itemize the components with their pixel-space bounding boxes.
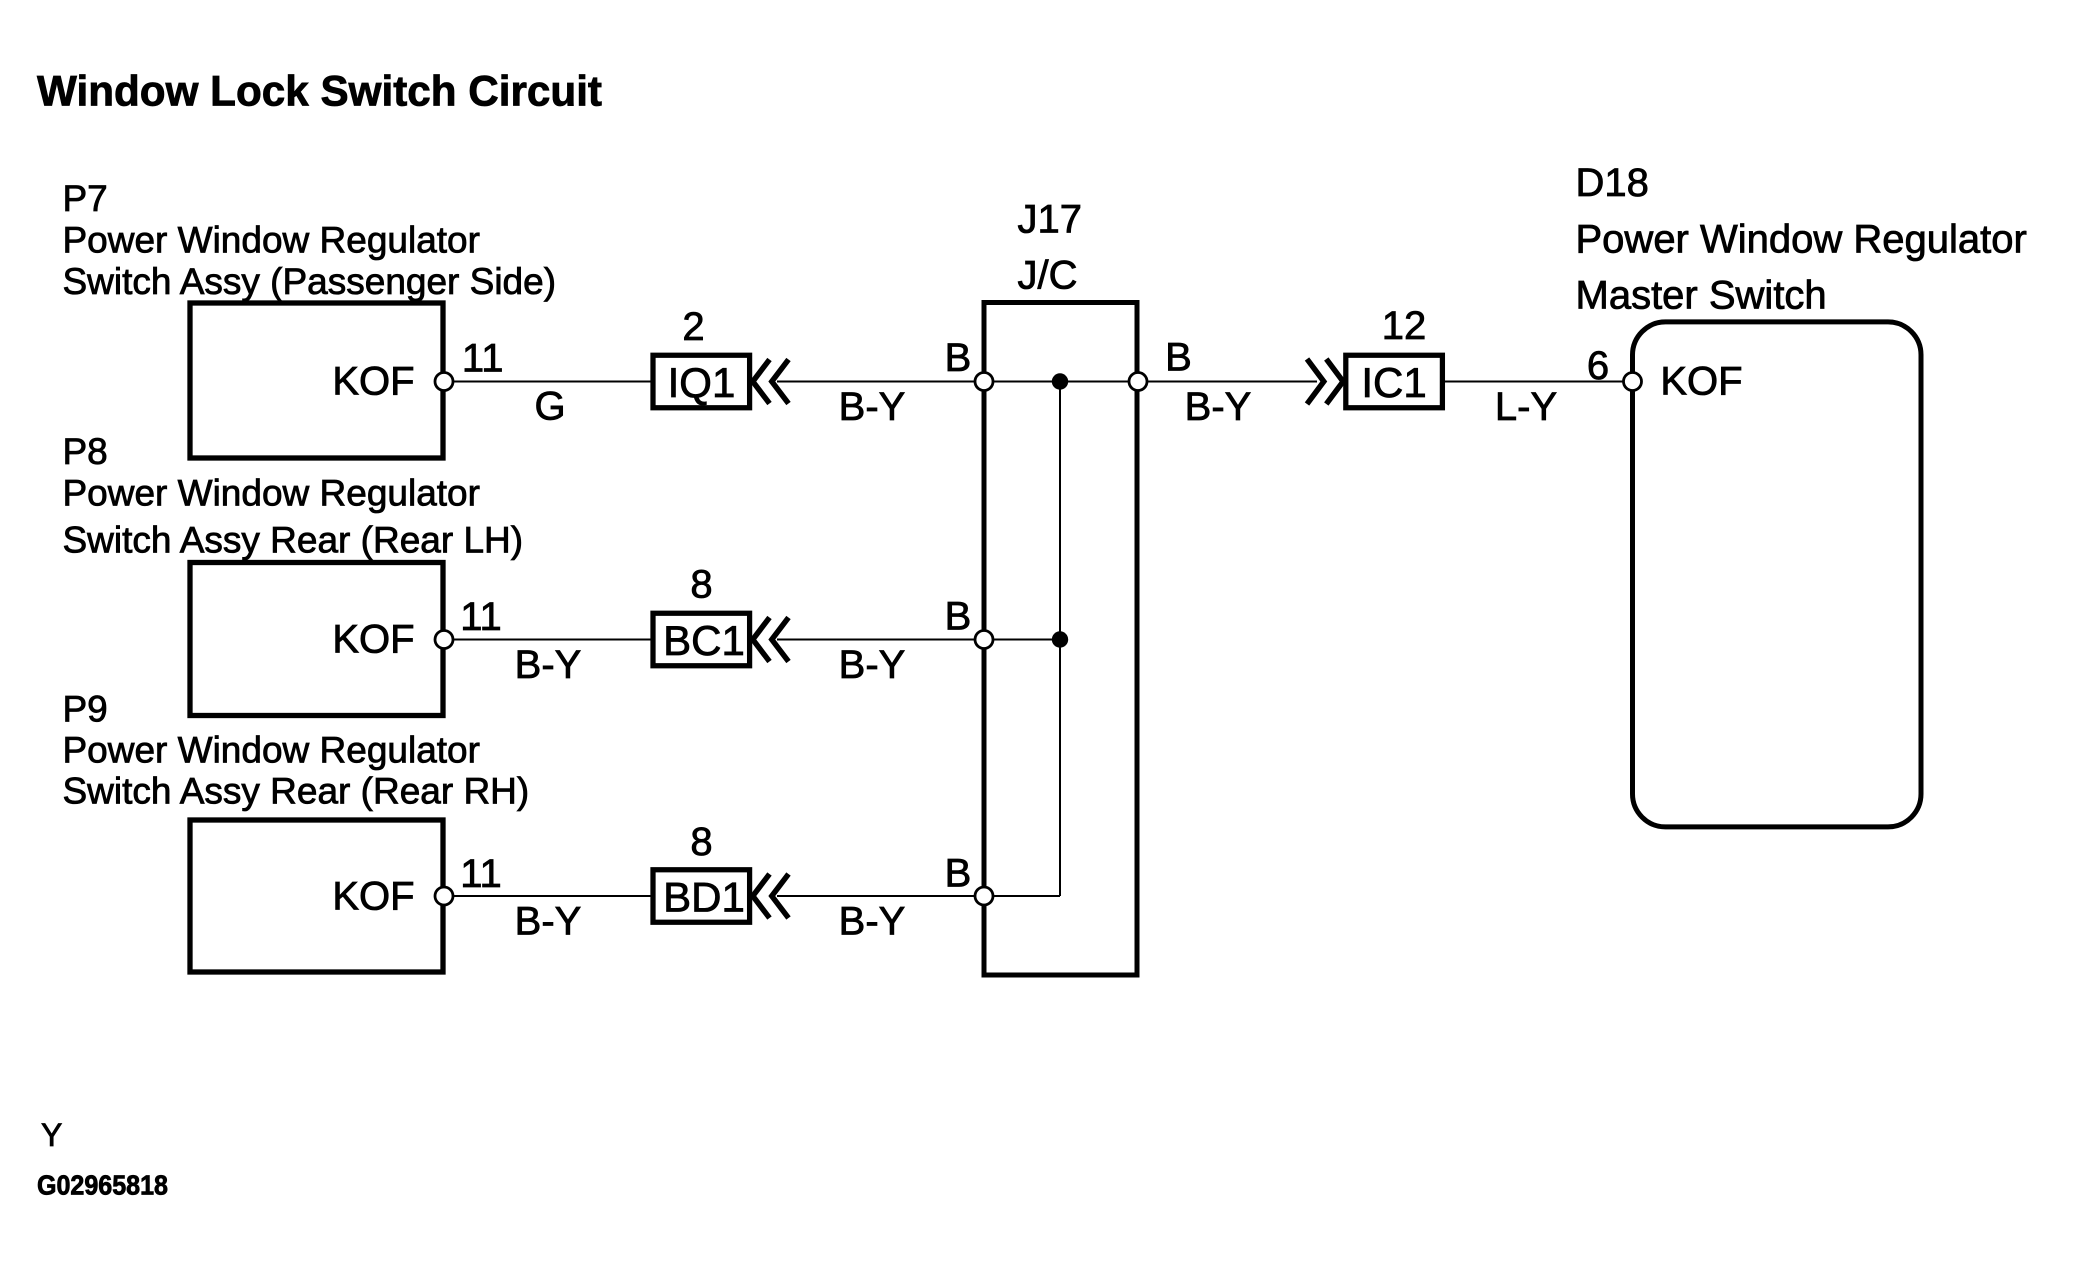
- wire label B-Y row1 right: [1185, 385, 1252, 429]
- svg-text:B-Y: B-Y: [839, 643, 906, 687]
- connector P7 box: [190, 303, 443, 458]
- wire label L-Y: [1495, 385, 1557, 429]
- svg-text:2: 2: [682, 305, 704, 349]
- svg-text:BD1: BD1: [663, 874, 745, 921]
- node B row3: [945, 852, 972, 896]
- pin 11 label P9: [460, 852, 502, 896]
- svg-text:D18: D18: [1576, 161, 1649, 205]
- pin KOF label P8: [332, 618, 414, 662]
- pin KOF label D18: [1660, 360, 1742, 404]
- wire BD1 to J/C row3, B-Y: [777, 895, 984, 897]
- svg-text:Power Window Regulator: Power Window Regulator: [63, 220, 480, 261]
- svg-text:B-Y: B-Y: [1185, 385, 1252, 429]
- connector P8 label: [63, 431, 524, 561]
- figure number G02965818: [37, 1170, 168, 1201]
- junction block J17 box: [984, 303, 1137, 976]
- svg-text:G02965818: G02965818: [37, 1170, 168, 1201]
- chevrons IC1 (male side): [1307, 359, 1343, 404]
- pin 8 label BD1: [690, 820, 712, 864]
- wire P8 pin11 to BC1, B-Y: [444, 639, 651, 641]
- svg-text:Switch Assy Rear (Rear LH): Switch Assy Rear (Rear LH): [63, 520, 524, 561]
- svg-text:P8: P8: [63, 431, 108, 472]
- connector P8 box: [190, 563, 443, 716]
- node B row2: [945, 595, 972, 639]
- node B row1 left: [945, 336, 972, 380]
- svg-text:11: 11: [460, 852, 502, 896]
- pin KOF label P9: [332, 875, 414, 919]
- svg-text:IC1: IC1: [1361, 359, 1426, 406]
- svg-text:Master Switch: Master Switch: [1576, 274, 1827, 318]
- svg-text:KOF: KOF: [332, 875, 414, 919]
- title: [37, 68, 602, 116]
- svg-text:BC1: BC1: [663, 617, 745, 664]
- svg-text:B: B: [945, 852, 972, 896]
- svg-text:Power Window Regulator: Power Window Regulator: [63, 473, 480, 514]
- svg-text:B: B: [1165, 336, 1192, 380]
- svg-text:Switch Assy Rear (Rear RH): Switch Assy Rear (Rear RH): [63, 771, 530, 812]
- chevrons row1 (female side): [753, 360, 789, 404]
- connector P9 box: [190, 820, 443, 972]
- svg-text:12: 12: [1382, 304, 1427, 348]
- wire label B-Y row2 left: [515, 643, 582, 687]
- svg-text:KOF: KOF: [1660, 360, 1742, 404]
- wire IQ1 to J/C row1, B-Y: [777, 381, 1317, 383]
- node J17 row2 left: [975, 631, 993, 649]
- inner wire row3: [984, 895, 1060, 897]
- svg-text:L-Y: L-Y: [1495, 385, 1557, 429]
- terminal node D18 KOF: [1624, 373, 1642, 391]
- terminal node P7 KOF: [435, 373, 453, 391]
- inner wire row2: [984, 639, 1060, 641]
- svg-text:B: B: [945, 595, 972, 639]
- svg-text:B-Y: B-Y: [515, 643, 582, 687]
- connector P7 label: [63, 178, 557, 302]
- wire P9 pin11 to BD1, B-Y: [444, 895, 651, 897]
- inner bus vertical wire: [1059, 382, 1061, 897]
- svg-text:P7: P7: [63, 178, 108, 219]
- connector code BC1: [653, 613, 750, 666]
- node J17 row1 right: [1129, 373, 1147, 391]
- junction block J17 label: [1018, 198, 1083, 298]
- connector code BD1: [653, 870, 750, 923]
- svg-text:P9: P9: [63, 689, 108, 730]
- component D18 box (master switch): [1633, 322, 1922, 827]
- wire label G: [534, 385, 565, 429]
- pin 11 label P7: [462, 337, 504, 381]
- svg-text:8: 8: [690, 820, 712, 864]
- pin 6 label D18: [1587, 344, 1609, 388]
- chevrons row2 (female side): [753, 618, 789, 662]
- svg-text:B-Y: B-Y: [839, 900, 906, 944]
- junction dot row2: [1052, 631, 1068, 647]
- wire label B-Y row3 right: [839, 900, 906, 944]
- svg-text:J/C: J/C: [1018, 254, 1078, 298]
- node J17 row3 left: [975, 887, 993, 905]
- pin 8 label BC1: [690, 563, 712, 607]
- svg-text:B: B: [945, 336, 972, 380]
- node J17 row1 left: [975, 373, 993, 391]
- svg-text:11: 11: [460, 595, 502, 639]
- wire P7 pin11 to IQ1, G: [444, 381, 651, 383]
- svg-text:11: 11: [462, 337, 504, 381]
- pin 11 label P8: [460, 595, 502, 639]
- pin 2 label IQ1: [682, 305, 704, 349]
- connector code IC1: [1346, 355, 1443, 408]
- connector P9 label: [63, 689, 530, 812]
- connector code IQ1: [653, 355, 750, 408]
- svg-text:Power Window Regulator: Power Window Regulator: [1576, 218, 2027, 262]
- wire BC1 to J/C row2, B-Y: [777, 639, 984, 641]
- wire label B-Y row2 right: [839, 643, 906, 687]
- wire IC1 to D18, L-Y: [1445, 381, 1633, 383]
- terminal node P9 KOF: [435, 887, 453, 905]
- node B row1 right: [1165, 336, 1192, 380]
- pin 12 label IC1: [1382, 304, 1427, 348]
- svg-text:Power Window Regulator: Power Window Regulator: [63, 730, 480, 771]
- svg-text:B-Y: B-Y: [515, 900, 582, 944]
- svg-text:J17: J17: [1018, 198, 1083, 242]
- svg-text:Y: Y: [41, 1117, 62, 1153]
- chevrons row3 (female side): [753, 874, 789, 918]
- page code Y: [41, 1117, 62, 1153]
- wire label B-Y row3 left: [515, 900, 582, 944]
- pin KOF label P7: [332, 360, 414, 404]
- svg-text:6: 6: [1587, 344, 1609, 388]
- svg-text:Window Lock Switch Circuit: Window Lock Switch Circuit: [37, 68, 602, 116]
- component D18 label: [1576, 161, 2027, 318]
- svg-text:Switch Assy (Passenger Side): Switch Assy (Passenger Side): [63, 261, 557, 302]
- svg-text:8: 8: [690, 563, 712, 607]
- wire label B-Y row1 left: [839, 385, 906, 429]
- svg-text:G: G: [534, 385, 565, 429]
- terminal node P8 KOF: [435, 631, 453, 649]
- svg-text:KOF: KOF: [332, 618, 414, 662]
- svg-text:B-Y: B-Y: [839, 385, 906, 429]
- junction dot row1: [1052, 373, 1068, 389]
- svg-text:KOF: KOF: [332, 360, 414, 404]
- svg-text:IQ1: IQ1: [668, 359, 736, 406]
